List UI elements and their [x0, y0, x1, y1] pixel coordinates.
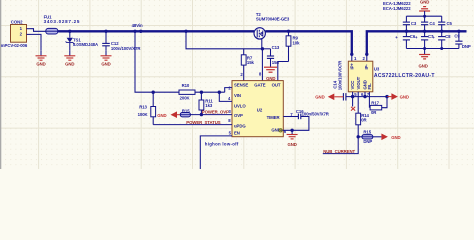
capacitor C13: [267, 45, 280, 67]
svg-text:GND: GND: [420, 0, 429, 5]
svg-text:100n/50V/X7R: 100n/50V/X7R: [302, 111, 330, 116]
svg-text:GND: GND: [400, 95, 409, 100]
svg-text:uPDG: uPDG: [234, 123, 246, 128]
ground top inverted: [419, 0, 430, 16]
resistor R7 sense: [240, 49, 254, 81]
capacitor C14: [333, 60, 346, 101]
wire gate to C13: [262, 48, 270, 50]
wire pin1 to fuse: [31, 29, 46, 32]
pin numbers U2 left: [228, 85, 293, 135]
svg-text:FIL: FIL: [367, 83, 372, 90]
sheet left edge: [0, 0, 1, 169]
wire U3 gnd rail: [346, 96, 387, 98]
svg-text:U2: U2: [257, 107, 263, 112]
wire T2 gate stub: [261, 39, 263, 49]
node sense drop junction: [184, 30, 187, 33]
ground right R15: [381, 134, 400, 141]
svg-text:100n/100V/X7R: 100n/100V/X7R: [111, 46, 142, 51]
resistor R11: [199, 92, 213, 114]
capacitor C8: [432, 31, 451, 48]
svg-text:100K: 100K: [138, 112, 149, 117]
svg-text:DNP: DNP: [462, 44, 471, 49]
capacitor C4: [421, 16, 435, 31]
sheet background: [0, 0, 474, 169]
svg-text:GND: GND: [391, 135, 400, 140]
wire U3 bottom stubs: [352, 92, 354, 107]
svg-text:200K: 200K: [180, 96, 191, 101]
node gate junction: [261, 47, 264, 50]
ground U2: [287, 130, 298, 147]
wire NUB_CURRENT: [323, 137, 358, 154]
transistor T2: [254, 12, 290, 39]
resistor R10: [179, 83, 225, 101]
capacitor C16 timer: [281, 109, 330, 131]
capacitor C7: [415, 31, 434, 48]
svg-text:POWER_OVP: POWER_OVP: [202, 109, 229, 114]
svg-text:UVLO: UVLO: [234, 103, 246, 108]
svg-text:DNP: DNP: [363, 139, 372, 144]
capacitor C6: [395, 31, 416, 48]
svg-text:highon low-off: highon low-off: [205, 141, 239, 146]
svg-text:R10: R10: [182, 83, 190, 88]
svg-text:IP-: IP-: [364, 64, 369, 70]
resistor R9 out: [286, 31, 300, 61]
svg-text:OUT: OUT: [272, 82, 281, 87]
ground cap bank: [418, 49, 430, 69]
wire pin2 to gnd: [31, 34, 42, 50]
svg-text:GND: GND: [287, 142, 296, 147]
svg-text:VCC: VCC: [350, 81, 355, 90]
ground TS1: [64, 51, 75, 67]
svg-text:GATE: GATE: [254, 82, 266, 87]
ground left R15: [157, 111, 180, 118]
resistor R15 dnp: [358, 129, 381, 144]
svg-text:C4: C4: [429, 21, 435, 26]
node divider junction: [133, 30, 136, 33]
svg-text:GND: GND: [315, 95, 324, 100]
node U3 ip+: [350, 53, 353, 56]
resistor R13: [138, 92, 156, 124]
resistor R14: [356, 113, 370, 137]
svg-text:GND: GND: [101, 62, 110, 67]
svg-text:TIMER: TIMER: [267, 115, 281, 120]
svg-text:8.0SMDJ48A: 8.0SMDJ48A: [73, 42, 98, 47]
node OUT feedback top: [287, 30, 290, 33]
resistor R15 ovp: [180, 109, 190, 117]
svg-text:R15: R15: [363, 129, 371, 134]
wire cap bottom rail: [406, 48, 459, 50]
capacitor C9 dnp: [454, 31, 471, 49]
connector CON2: [1, 20, 31, 48]
svg-text:GND: GND: [418, 63, 427, 68]
svg-text:48Vin: 48Vin: [132, 23, 143, 28]
IC U3 body: [348, 61, 373, 92]
svg-text:POWER_STATUS: POWER_STATUS: [186, 120, 220, 125]
svg-text:SENSE: SENSE: [234, 82, 248, 87]
node OVP junction: [200, 113, 203, 116]
resistor R17: [370, 97, 387, 115]
ground C13: [264, 67, 277, 81]
grid major lines: [0, 0, 474, 169]
svg-text:U3: U3: [374, 67, 380, 72]
svg-text:GND: GND: [36, 62, 45, 67]
wire bus segment U3 pin to cap bank: [367, 31, 467, 54]
wire EN: [200, 136, 232, 169]
node bus cap junctions: [405, 30, 408, 33]
node R13 junction: [152, 91, 155, 94]
capacitor C12: [102, 31, 141, 51]
op-amp U2 body: [232, 81, 283, 137]
wire bus segment MOSFET to U3 pin: [265, 31, 352, 54]
svg-text:ECA-1JM6222: ECA-1JM6222: [383, 6, 411, 11]
svg-text:1k3: 1k3: [205, 103, 213, 108]
wire cap top rail: [406, 15, 441, 17]
fuse FU1: [44, 14, 81, 34]
svg-text:C8: C8: [445, 34, 451, 39]
node UVLO junction: [218, 91, 221, 94]
TVS diode TS1: [66, 31, 98, 51]
no-erc marker: [351, 107, 355, 111]
svg-text:C9: C9: [454, 34, 460, 39]
node R11 junction: [200, 91, 203, 94]
no-erc pin6: [279, 129, 282, 132]
wire UVLO jog: [219, 92, 232, 101]
node viout junction: [357, 135, 360, 138]
svg-text:3403.0287.25: 3403.0287.25: [44, 19, 81, 24]
svg-text:mPCV-02-006: mPCV-02-006: [1, 43, 28, 48]
wire divider drop: [135, 31, 179, 92]
svg-text:OVP: OVP: [234, 113, 243, 118]
svg-text:SUM70040E-GE3: SUM70040E-GE3: [256, 16, 290, 21]
wire OVP: [190, 114, 232, 116]
svg-text:CON2: CON2: [11, 20, 23, 25]
wire VIN jog: [225, 88, 232, 93]
wire bus segment fuse to MOSFET: [58, 30, 254, 32]
node U2 gnd junction: [290, 129, 293, 132]
svg-text:C5: C5: [447, 21, 453, 26]
node C12 junction: [104, 30, 107, 33]
svg-text:100n/100V/X7R: 100n/100V/X7R: [338, 60, 343, 91]
wire POWER_STATUS: [153, 124, 232, 126]
svg-text:VIN: VIN: [234, 93, 241, 98]
svg-text:10k: 10k: [293, 40, 301, 45]
svg-text:NUB_CURRENT: NUB_CURRENT: [323, 149, 355, 154]
ground left C14: [315, 94, 343, 101]
svg-text:C13: C13: [272, 45, 280, 50]
svg-text:R13: R13: [139, 105, 147, 110]
ground C12: [101, 51, 112, 67]
svg-text:15k: 15k: [247, 60, 255, 65]
svg-text:GND: GND: [65, 62, 74, 67]
svg-text:EN: EN: [234, 131, 240, 136]
wire gate harness: [186, 31, 262, 49]
ground right U3 rail: [387, 93, 409, 100]
svg-text:C3: C3: [411, 21, 417, 26]
wire gate down to U2: [261, 49, 263, 81]
svg-text:ACS722LLCTR-20AU-T: ACS722LLCTR-20AU-T: [374, 73, 435, 79]
wire U3 top stubs: [351, 54, 353, 61]
capacitor C5: [438, 16, 452, 31]
svg-text:VIOUT: VIOUT: [356, 76, 361, 89]
node TS1 junction: [68, 30, 71, 33]
svg-text:GND: GND: [157, 113, 166, 118]
wire OUT pin: [278, 62, 289, 81]
svg-text:R17: R17: [371, 101, 379, 106]
ground CON2 pin2: [36, 51, 47, 67]
svg-text:IP+: IP+: [350, 63, 355, 70]
capacitor C3: [403, 16, 417, 31]
node U3 ip-: [365, 53, 368, 56]
